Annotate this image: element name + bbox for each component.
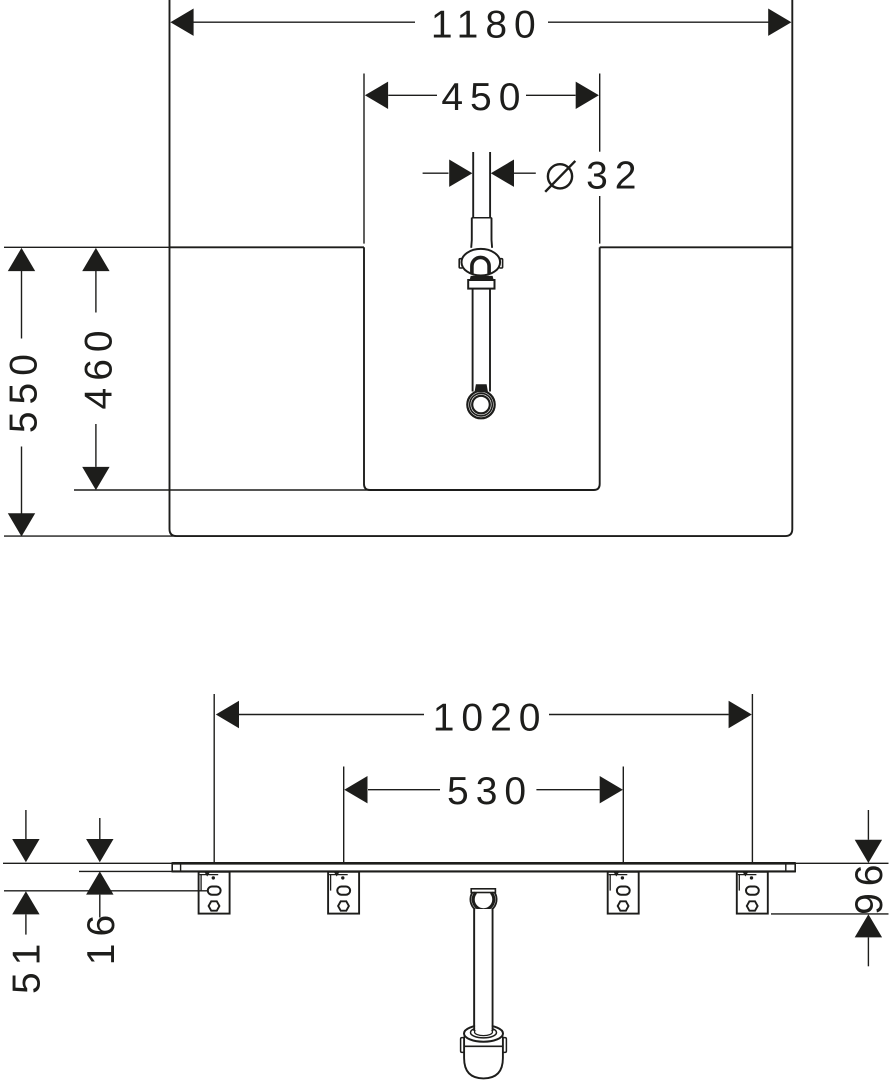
washbasin deck top rear edge right segment	[600, 246, 793, 248]
cup rim outer ellipse	[464, 1025, 503, 1041]
cup rim inner ellipse 2	[475, 1028, 493, 1035]
drain pipe joint tick	[472, 217, 492, 219]
dimension 550 upper line	[21, 271, 23, 339]
washbasin deck top rear edge left segment	[170, 246, 365, 248]
svg-text:1180: 1180	[431, 3, 543, 46]
extension line for 550/460 top (deck edge extended left)	[4, 246, 170, 248]
diameter symbol slash	[545, 161, 575, 192]
drain pipe lower right line	[489, 289, 491, 392]
dimension diameter 32 line right	[514, 172, 536, 174]
dimension 1020 line left segment	[239, 714, 424, 716]
extension line 530 left	[343, 767, 345, 863]
dimension 530 right arrow	[600, 776, 623, 803]
drain pipe upper right line	[489, 152, 491, 218]
cup left clip	[461, 1038, 465, 1053]
diameter symbol circle	[548, 164, 572, 188]
siphon pipe right line redraw	[492, 909, 494, 1031]
dimension 460 lower line	[95, 424, 97, 467]
washbasin deck outline (top view) with left/right edges and rounded bottom	[170, 0, 793, 536]
siphon pipe left line	[473, 909, 475, 1031]
dimension 96 up arrow	[855, 914, 882, 937]
svg-text:32: 32	[586, 155, 643, 198]
dimension 16 down arrow	[86, 839, 113, 862]
dimension 460 upper line	[95, 271, 97, 313]
dimension 450 right arrow	[576, 82, 599, 109]
dimension 1020 left arrow	[216, 701, 239, 728]
cup rim inner ellipse 1	[471, 1027, 497, 1038]
dimension diameter 32 left arrow pointing right	[449, 160, 472, 187]
drain outlet dark cap	[475, 384, 489, 392]
extension line for 550 bottom (deck bottom extended left)	[4, 535, 176, 537]
trap inner arch	[472, 257, 489, 273]
dimension diameter 32 line left	[423, 172, 449, 174]
cup body	[464, 1037, 503, 1079]
siphon pipe white overlay	[475, 909, 492, 1031]
dimension diameter 32 right arrow pointing left	[491, 160, 514, 187]
trap left side tab	[459, 259, 462, 268]
dimension 550 down arrow	[8, 513, 35, 536]
dimension 530 left arrow	[344, 776, 367, 803]
dimension 1180 line left segment	[194, 21, 416, 23]
drain pipe upper (top view) left line	[472, 152, 474, 218]
dimension 96 lower line	[867, 937, 869, 966]
siphon pipe right line	[492, 909, 494, 1031]
extension line for 450 right upper segment	[599, 74, 601, 152]
dimension 1180 right arrow	[768, 9, 791, 36]
svg-text:460: 460	[77, 323, 120, 409]
bowl cutout outline	[364, 247, 600, 490]
extension line 1020 right	[751, 694, 753, 863]
svg-text:1020: 1020	[433, 696, 548, 739]
siphon flange bar	[471, 889, 495, 893]
mounting bracket 4	[737, 872, 768, 914]
dimension 16 up arrow	[86, 871, 113, 894]
dimension 1180 left arrow	[170, 9, 193, 36]
siphon pipe left line redraw	[473, 909, 475, 1031]
dimension 550 lower line	[21, 447, 23, 515]
trap collar dark band	[470, 276, 494, 280]
cup band line	[464, 1045, 503, 1047]
underside extension line left	[79, 870, 172, 872]
dimension 51 up arrow	[12, 891, 39, 914]
mounting bracket 2	[328, 872, 359, 914]
dimension 1020 line right segment	[549, 714, 729, 716]
drain pipe sleeve right line	[491, 218, 494, 248]
trap right side tab	[499, 259, 502, 268]
dimension 460 up arrow	[82, 248, 109, 271]
svg-text:51: 51	[5, 937, 48, 994]
extension line 530 right	[622, 767, 624, 863]
drain pipe sleeve left line	[470, 218, 473, 248]
dimension 530 line left segment	[368, 789, 440, 791]
full width top surface extension line (front view)	[3, 862, 889, 864]
dimension 450 line left segment	[388, 94, 437, 96]
siphon U clamp inner	[473, 893, 494, 910]
dimension 460 down arrow	[82, 467, 109, 490]
console plate right end notch	[785, 863, 787, 871]
cup right clip	[503, 1038, 507, 1053]
console plate left end edge	[171, 862, 173, 872]
siphon U clamp outer	[470, 893, 496, 913]
dimension 51 lower line	[25, 914, 27, 934]
dimension 530 line right segment	[536, 789, 599, 791]
svg-text:16: 16	[80, 908, 123, 965]
mounting bracket 1	[199, 872, 230, 914]
console plate left end notch	[180, 863, 182, 871]
dimension 450 line right segment	[526, 94, 576, 96]
extension line for 96 bottom (bracket bottom extended right)	[771, 913, 889, 915]
trap flange rectangle	[468, 280, 494, 289]
dimension 450 left arrow	[365, 82, 388, 109]
drain outlet outer circle	[467, 391, 494, 418]
svg-text:530: 530	[447, 770, 533, 813]
dimension 1180 line right segment	[548, 21, 769, 23]
extension line for 460 bottom (bowl bottom extended left)	[74, 489, 372, 491]
svg-text:550: 550	[2, 347, 45, 433]
dimension 550 up arrow	[8, 248, 35, 271]
extension line 1020 left	[213, 694, 215, 863]
svg-text:96: 96	[848, 858, 891, 915]
dimension 1020 right arrow	[729, 701, 752, 728]
drain outlet inner ring	[472, 396, 490, 414]
console plate top line	[172, 862, 795, 865]
trap body ellipse (top view)	[462, 249, 501, 276]
dimension 51 upper line	[25, 810, 27, 840]
extension line for 450 left (bowl left edge extended)	[363, 74, 365, 244]
extension line for 450 right lower segment	[599, 196, 601, 244]
dimension 16 lower line	[99, 895, 101, 918]
dimension 96 down arrow	[855, 840, 882, 863]
dimension 96 upper line	[867, 810, 869, 840]
console plate bottom line	[172, 870, 795, 872]
dimension 51 down arrow	[12, 839, 39, 862]
mounting bracket 3	[608, 872, 639, 914]
svg-text:450: 450	[441, 76, 527, 119]
dimension 16 upper line	[99, 818, 101, 848]
console plate right end edge	[794, 862, 796, 872]
drain outlet middle circle	[470, 393, 493, 416]
drain pipe lower left line	[472, 289, 474, 392]
extension line for 51 (to bracket slot)	[4, 890, 208, 892]
